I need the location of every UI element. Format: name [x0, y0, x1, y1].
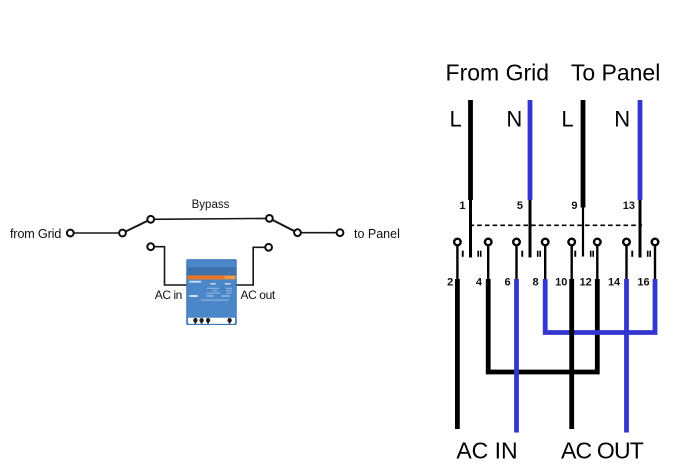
svg-text:5: 5	[517, 200, 523, 212]
svg-text:2: 2	[447, 277, 453, 289]
svg-text:6: 6	[504, 277, 510, 289]
switch S1 bypass throw node	[147, 216, 154, 223]
wire AC-out branch: S2 lower throw to inverter AC out	[237, 247, 266, 285]
jumper position marks I / II (group 4)	[631, 251, 651, 257]
wire switch S2 common to Panel terminal	[298, 232, 341, 234]
wire from Grid terminal to switch S1 common	[71, 232, 122, 234]
svg-text:13: 13	[623, 200, 635, 212]
svg-text:AC OUT: AC OUT	[561, 437, 644, 463]
terminal 10 (circle and pin)	[568, 239, 575, 280]
wire terminal 2 to AC IN L (black)	[455, 279, 460, 429]
svg-text:L: L	[561, 106, 573, 131]
svg-text:L: L	[449, 106, 461, 131]
wire L to Panel (into terminal 9)	[581, 100, 586, 208]
inverter U1 (Victron MultiPlus)	[187, 260, 237, 325]
svg-text:AC in: AC in	[155, 288, 182, 302]
svg-text:from Grid: from Grid	[10, 226, 61, 241]
svg-text:10: 10	[555, 277, 567, 289]
svg-text:8: 8	[532, 277, 538, 289]
svg-text:Bypass: Bypass	[192, 199, 230, 211]
svg-text:From Grid: From Grid	[446, 59, 550, 85]
terminal 16 (circle and pin)	[652, 239, 659, 280]
wire N from Grid (into terminal 5)	[528, 100, 533, 200]
wire N to Panel (into terminal 13)	[638, 100, 643, 200]
wire L from Grid (into terminal 1)	[468, 100, 473, 200]
svg-text:1: 1	[459, 200, 465, 212]
terminal to Panel	[337, 229, 344, 236]
switch S2 AC-out throw node	[265, 244, 272, 251]
svg-text:To Panel: To Panel	[571, 59, 661, 85]
switch S2 bypass throw node	[266, 215, 273, 222]
wire terminal 14 to AC OUT N (blue)	[624, 279, 629, 433]
wire stub terminal 1	[469, 200, 472, 258]
dashed terminal-block boundary	[470, 224, 643, 226]
wire terminal 6 to AC IN N (blue)	[514, 279, 519, 433]
switch S1 blade (thrown to bypass)	[123, 219, 151, 233]
bypass wire	[151, 217, 270, 220]
terminal from Grid	[67, 230, 74, 237]
switch S1 AC-in throw node	[147, 243, 154, 250]
switch S2 blade (thrown to bypass)	[269, 218, 297, 232]
terminal 14 (circle and pin)	[623, 239, 630, 280]
svg-text:AC out: AC out	[241, 288, 276, 302]
svg-text:to Panel: to Panel	[354, 227, 400, 241]
svg-text:4: 4	[476, 277, 483, 289]
svg-text:AC IN: AC IN	[456, 437, 517, 463]
wire stub terminal 9	[582, 208, 584, 257]
svg-text:N: N	[506, 106, 522, 131]
terminal 2 (circle and pin)	[454, 239, 461, 280]
wire stub terminal 13	[639, 200, 642, 258]
svg-text:14: 14	[608, 277, 621, 289]
jumper wire terminal 8 to terminal 16 (blue)	[545, 279, 655, 333]
wire stub terminal 5	[529, 200, 532, 258]
svg-text:N: N	[614, 106, 630, 131]
terminal 4 (circle and pin)	[485, 239, 492, 280]
svg-text:12: 12	[580, 277, 592, 289]
wire terminal 10 to AC OUT L (black)	[569, 279, 574, 429]
jumper position marks I / II (group 2)	[521, 251, 541, 257]
jumper position marks I / II (group 3)	[574, 251, 594, 257]
svg-text:9: 9	[571, 200, 577, 212]
switch S1 common node	[119, 230, 126, 237]
terminal 12 (circle and pin)	[594, 239, 601, 280]
switch S2 common node	[294, 229, 301, 236]
terminal 6 (circle and pin)	[513, 239, 520, 280]
wire AC-in branch: S1 lower throw to inverter AC in	[154, 247, 187, 285]
terminal 8 (circle and pin)	[542, 239, 549, 280]
jumper wire terminal 4 to terminal 12 (black)	[488, 279, 597, 372]
jumper position marks I / II (group 1)	[462, 251, 482, 257]
svg-text:16: 16	[637, 277, 649, 289]
